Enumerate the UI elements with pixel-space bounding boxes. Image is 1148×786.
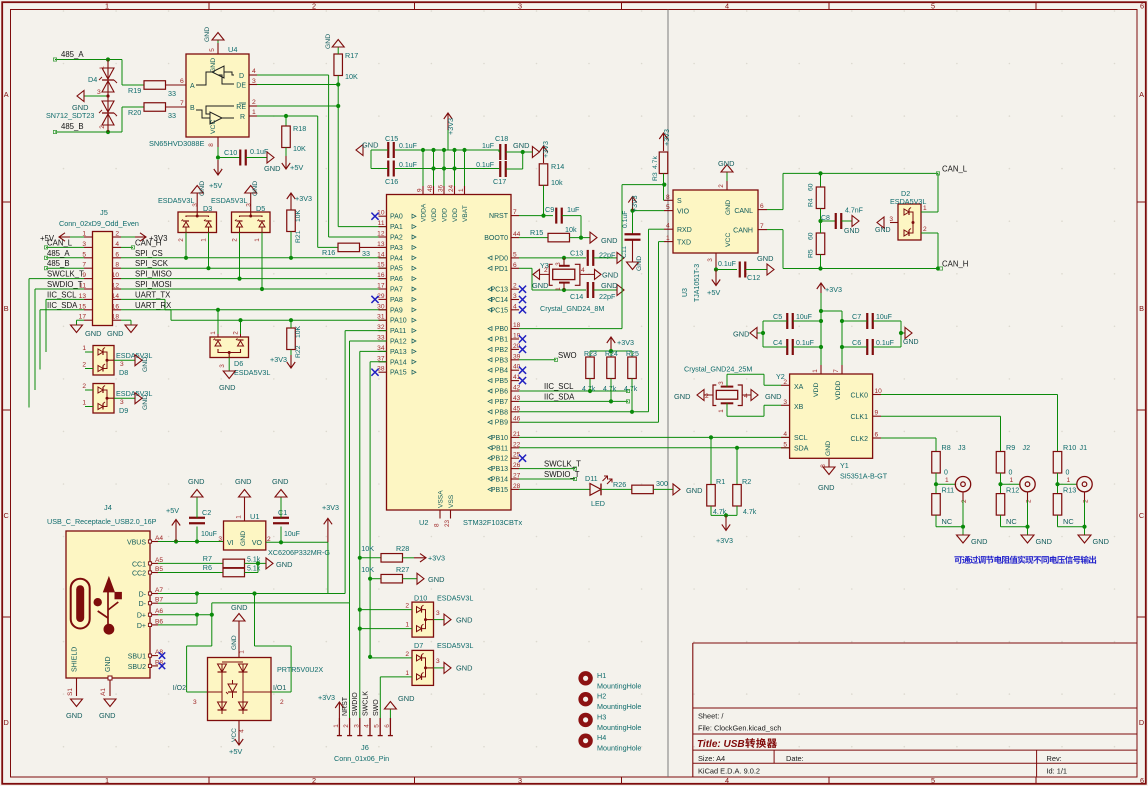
node junction D4 top (106, 57, 110, 61)
ground GND right of R26 (673, 484, 702, 495)
node junction B7 join (195, 591, 199, 595)
resistor R21 10K (287, 209, 302, 243)
wire PD1 to crystal bottom (519, 268, 586, 290)
svg-text:10K: 10K (361, 565, 374, 574)
ground GND below A1 (99, 699, 116, 720)
power +3V3 above R21 (287, 193, 312, 210)
svg-text:R6: R6 (203, 563, 212, 572)
svg-text:MountingHole: MountingHole (597, 702, 641, 711)
svg-text:PB13: PB13 (491, 466, 508, 473)
ground GND right of C8 (844, 216, 860, 236)
svg-text:0.1uF: 0.1uF (796, 340, 814, 347)
svg-text:GND: GND (240, 531, 247, 546)
resistor R10 0 (1053, 443, 1076, 477)
svg-text:6: 6 (760, 203, 764, 210)
svg-text:PA15: PA15 (390, 370, 407, 377)
label SWCLK_T at J5 + wire to D9 (29, 270, 84, 408)
svg-text:PB12: PB12 (491, 456, 508, 463)
svg-text:A: A (1139, 90, 1144, 99)
node junctions VDD bus (421, 148, 467, 171)
svg-text:CAN_L: CAN_L (47, 238, 73, 247)
wire UART_RX to PA10 (121, 310, 387, 320)
svg-text:C16: C16 (385, 177, 398, 186)
svg-text:GND: GND (513, 141, 529, 150)
svg-text:PB1: PB1 (495, 337, 508, 344)
wire VCC pin3 down (715, 261, 717, 270)
svg-text:TXD: TXD (677, 240, 691, 247)
svg-text:27: 27 (513, 473, 521, 480)
svg-text:1: 1 (254, 238, 261, 242)
ground GND below J1 (1078, 527, 1109, 546)
svg-text:R16: R16 (322, 248, 335, 257)
svg-text:PA11: PA11 (390, 328, 406, 335)
node junction SDA R2 (735, 446, 739, 450)
wire J3 jack gnd join (936, 500, 963, 527)
wire +3V3 leg down to D- row (327, 542, 329, 593)
svg-text:PB5: PB5 (495, 378, 508, 385)
svg-text:CC1: CC1 (132, 561, 146, 568)
svg-text:SBU2: SBU2 (128, 664, 146, 671)
svg-text:+5V: +5V (707, 288, 720, 297)
svg-text:D10: D10 (414, 594, 427, 603)
svg-text:J1: J1 (1080, 443, 1088, 452)
wire D8 pin3 GND (114, 355, 149, 372)
svg-text:2: 2 (705, 393, 709, 400)
node junction D5.1 (260, 287, 264, 291)
svg-text:VCC: VCC (725, 233, 732, 247)
label 485_A at J5 (44, 249, 84, 260)
svg-text:15: 15 (79, 303, 87, 310)
svg-text:R13: R13 (1063, 486, 1076, 495)
svg-text:33: 33 (168, 89, 176, 98)
svg-text:4: 4 (725, 1, 729, 10)
svg-text:0.1uF: 0.1uF (876, 340, 894, 347)
svg-text:R4: R4 (808, 198, 815, 207)
svg-text:PB10: PB10 (491, 435, 508, 442)
svg-text:+5V: +5V (209, 181, 222, 190)
svg-text:IIC_SDA: IIC_SDA (544, 392, 575, 401)
title block (693, 643, 1137, 777)
ground GND below D6 (219, 371, 235, 392)
svg-text:4: 4 (666, 223, 670, 230)
svg-text:File: ClockGen.kicad_sch: File: ClockGen.kicad_sch (698, 724, 781, 733)
svg-text:GND: GND (325, 34, 332, 49)
node junction D5.2 (237, 277, 241, 281)
svg-text:Conn_02xD9_Odd_Even: Conn_02xD9_Odd_Even (59, 219, 139, 228)
wire D6 pin2 to UART_RX (240, 320, 242, 334)
svg-text:PB2: PB2 (495, 347, 508, 354)
power +3V3 above R14 (539, 141, 550, 163)
ground GND at D4 (72, 91, 88, 113)
svg-text:GND: GND (674, 392, 690, 401)
svg-text:H4: H4 (597, 733, 606, 742)
wire VDD1 pin stub (433, 150, 435, 186)
svg-text:485_A: 485_A (47, 249, 70, 258)
svg-text:10: 10 (112, 272, 120, 279)
svg-text:1: 1 (718, 409, 725, 413)
svg-text:1: 1 (210, 331, 217, 335)
svg-text:C18: C18 (495, 134, 508, 143)
svg-text:7: 7 (180, 100, 184, 107)
svg-text:10uF: 10uF (284, 531, 300, 538)
svg-text:3: 3 (889, 216, 893, 223)
svg-text:44: 44 (513, 231, 521, 238)
svg-text:PB11: PB11 (491, 445, 508, 452)
svg-text:R28: R28 (396, 544, 409, 553)
svg-text:GND: GND (188, 477, 204, 486)
power +3V3 above R3 (659, 129, 671, 151)
wire R27 to GND (403, 578, 418, 580)
power +3V3 below R22 (270, 350, 295, 369)
wire R16 left (318, 246, 338, 248)
svg-text:33: 33 (168, 111, 176, 120)
ground GND below U5 (818, 467, 835, 492)
wire BOOT0 to R15 (519, 237, 548, 239)
node junction R4 top (818, 171, 822, 175)
svg-text:3: 3 (219, 364, 226, 368)
svg-text:2: 2 (99, 125, 106, 129)
wire R15 right (570, 237, 591, 239)
svg-text:3: 3 (707, 258, 714, 262)
connector J5 Conn_02xD9_Odd_Even (59, 208, 139, 326)
node junction R18 top (284, 114, 288, 118)
node junction D+ tap (210, 613, 214, 617)
resistor R3 4.7k (652, 152, 668, 181)
svg-text:C14: C14 (570, 292, 583, 301)
resistor R7 5.1k (203, 554, 261, 568)
svg-text:D7: D7 (414, 641, 423, 650)
node junction D10.2 (358, 608, 362, 612)
svg-text:NRST: NRST (489, 213, 509, 220)
svg-text:0: 0 (1009, 470, 1013, 477)
svg-text:XA: XA (794, 384, 804, 391)
capacitor C8 4.7nF (821, 208, 863, 230)
ground GND right of C18 (513, 141, 539, 158)
J4 pin D+ A6 (137, 608, 164, 620)
svg-text:32: 32 (377, 324, 385, 331)
pin 8 U4 bottom (208, 137, 218, 147)
wire UART_TX to PA9 (121, 299, 387, 309)
svg-text:GND: GND (1093, 537, 1109, 546)
svg-text:SWO: SWO (558, 351, 577, 360)
wire VDD2 pin stub (443, 150, 445, 186)
svg-text:SHIELD: SHIELD (72, 647, 79, 672)
wire PB10 SCL (519, 436, 790, 438)
node junction +5V vbus (174, 539, 178, 543)
svg-text:1: 1 (105, 1, 109, 10)
svg-text:VDDA: VDDA (421, 203, 428, 222)
resistor R9 0 (996, 443, 1015, 477)
ground GND at J5 pin18 (107, 320, 137, 338)
svg-text:SWCLK_T: SWCLK_T (47, 270, 84, 279)
wire VDD bus lower (395, 168, 499, 170)
D1 pin I/O1 (273, 685, 286, 706)
svg-text:300: 300 (656, 479, 668, 488)
svg-text:2: 2 (405, 603, 409, 610)
svg-text:6: 6 (115, 251, 119, 258)
wire Y2 top to XA (727, 374, 781, 386)
svg-text:IIC_SDA: IIC_SDA (47, 301, 78, 310)
wire R21 to SPI_CS (290, 232, 292, 258)
label SWDIO_T at PB14 (519, 470, 580, 481)
wire CLK2 to J3 (881, 438, 936, 452)
svg-text:9: 9 (417, 188, 424, 192)
diode D7 ESDA5V3L (405, 650, 433, 685)
svg-text:1: 1 (812, 369, 819, 373)
wire 485_A (53, 58, 122, 61)
svg-text:J4: J4 (104, 503, 112, 512)
ground GND left of Y3 pin2 (532, 269, 549, 290)
svg-text:PA12: PA12 (390, 339, 407, 346)
svg-text:+3V3: +3V3 (632, 195, 639, 212)
svg-text:VDDD: VDDD (835, 381, 842, 400)
svg-text:4: 4 (252, 68, 256, 75)
svg-text:2: 2 (1026, 499, 1033, 503)
svg-text:3: 3 (718, 381, 725, 385)
svg-text:22: 22 (513, 441, 521, 448)
svg-text:R20: R20 (128, 108, 141, 117)
svg-text:A: A (190, 83, 195, 90)
node junction R6 R7 (256, 561, 260, 565)
power +3V3 at J5 pin2 (121, 233, 167, 243)
svg-text:GND: GND (765, 392, 781, 401)
svg-text:D-: D- (139, 601, 147, 608)
svg-text:1: 1 (405, 670, 409, 677)
svg-text:VBUS: VBUS (127, 540, 146, 547)
wire C17 C18 right join (506, 152, 523, 169)
diode D8 ESDA5V3L (82, 345, 114, 375)
svg-text:33: 33 (362, 249, 370, 258)
svg-text:D8: D8 (119, 368, 128, 377)
svg-text:2: 2 (82, 362, 86, 369)
capacitor C16 0.1uF (385, 161, 417, 187)
svg-text:SWDIO: SWDIO (352, 692, 359, 716)
node junction C8 (818, 219, 822, 223)
svg-text:B7: B7 (155, 597, 163, 604)
svg-text:Conn_01x06_Pin: Conn_01x06_Pin (334, 754, 389, 763)
wire D7 pin1 to SWO (380, 677, 412, 718)
svg-text:VIO: VIO (677, 209, 690, 216)
power +5V at VBUS (166, 506, 180, 542)
cursor crosshair line (667, 10, 669, 778)
svg-text:TJA1051T-3: TJA1051T-3 (694, 264, 701, 302)
wire CLK1 to J2 (881, 416, 1001, 451)
wire CC1 to R7 (158, 562, 223, 564)
svg-text:Y2: Y2 (776, 372, 785, 381)
svg-text:CLK0: CLK0 (850, 393, 868, 400)
node junction J1 gnd (1082, 525, 1086, 529)
svg-text:NRST: NRST (342, 696, 349, 716)
diode D5 ESDA5V3L (232, 203, 271, 242)
svg-text:Sheet: /: Sheet: / (698, 712, 724, 721)
diode D2 ESDA5V3L (890, 189, 928, 240)
svg-text:2: 2 (343, 724, 350, 728)
label 485_B (61, 122, 84, 131)
ground GND at J5 pin17 (71, 320, 102, 338)
ground GND right of C10 (264, 152, 280, 173)
node junction D10.1 (358, 627, 362, 631)
svg-text:GND: GND (456, 616, 472, 625)
svg-text:C: C (1139, 511, 1144, 520)
svg-text:GND: GND (72, 103, 88, 112)
svg-text:5: 5 (374, 724, 381, 728)
svg-text:2: 2 (513, 283, 517, 290)
svg-text:B: B (1139, 304, 1144, 313)
svg-text:+3V3: +3V3 (318, 693, 335, 702)
svg-text:C2: C2 (202, 508, 211, 517)
diode D1 PRTR5V0U2X (208, 658, 324, 721)
wire PA2 entry (329, 236, 387, 238)
svg-text:SN65HVD3088E: SN65HVD3088E (149, 139, 205, 148)
svg-text:6: 6 (1140, 776, 1144, 785)
resistor R12 NC (996, 484, 1019, 526)
svg-text:+3V3: +3V3 (428, 554, 445, 563)
svg-text:GND: GND (107, 329, 123, 338)
resistor R18 10K (282, 116, 306, 153)
svg-text:4.7k: 4.7k (603, 386, 617, 393)
labels D7 (414, 641, 473, 665)
svg-text:8: 8 (666, 194, 670, 201)
power +3V3 above U2 (444, 113, 455, 150)
node junction B6 join (195, 613, 199, 617)
svg-text:10K: 10K (345, 72, 358, 81)
svg-text:R21: R21 (295, 230, 302, 243)
svg-text:Y1: Y1 (840, 461, 849, 470)
svg-text:R10: R10 (1063, 443, 1076, 452)
ground GND above U1 (235, 477, 251, 497)
svg-text:1: 1 (458, 188, 465, 192)
ground GND above C1 (272, 477, 288, 518)
ground GND below J2 (1021, 527, 1052, 546)
svg-text:4.7k: 4.7k (652, 156, 659, 169)
svg-text:PD1: PD1 (494, 266, 508, 273)
ground GND right of R7 (266, 558, 292, 569)
svg-text:37: 37 (377, 355, 385, 362)
wire U4 RE pin2 (249, 105, 338, 107)
node junction VIO C11 (630, 209, 634, 213)
node junction J2 (998, 482, 1002, 486)
svg-text:SBU1: SBU1 (128, 654, 146, 661)
wire SPI_MISO to PA6 (121, 278, 387, 280)
svg-text:4.7k: 4.7k (743, 509, 757, 516)
node junction R22 (289, 318, 293, 322)
svg-text:PRTR5V0U2X: PRTR5V0U2X (277, 665, 323, 674)
svg-text:12: 12 (377, 231, 385, 238)
capacitor C15 0.1uF (385, 134, 417, 158)
svg-text:1: 1 (82, 400, 86, 407)
wire U1 VO (266, 541, 328, 543)
svg-text:Id: 1/1: Id: 1/1 (1047, 766, 1068, 775)
svg-text:GND: GND (105, 656, 112, 672)
svg-text:PB7: PB7 (495, 399, 508, 406)
svg-text:R24: R24 (605, 351, 618, 358)
wire SPI_SCK to PA5 (121, 267, 387, 269)
svg-text:SPI_CS: SPI_CS (135, 249, 163, 258)
svg-text:PB15: PB15 (491, 487, 508, 494)
node junction D7.2 (368, 655, 372, 659)
wire D3 pin2 to SPI_CS (185, 233, 187, 258)
svg-text:C10: C10 (224, 148, 237, 157)
node junction D4 bottom (106, 130, 110, 134)
svg-text:0.1uF: 0.1uF (250, 147, 269, 156)
wire D3 pin1 to SPI_SCK (208, 233, 210, 269)
svg-text:+5V: +5V (229, 747, 242, 756)
svg-text:0.1uF: 0.1uF (476, 162, 494, 169)
svg-text:NC: NC (942, 517, 953, 526)
crystal Y3 Crystal_GND24_8M (540, 258, 604, 313)
svg-text:5: 5 (666, 204, 670, 211)
svg-text:3: 3 (82, 241, 86, 248)
svg-text:10: 10 (875, 388, 883, 395)
svg-text:2: 2 (232, 238, 239, 242)
svg-text:R3: R3 (652, 172, 659, 181)
mounting hole H1 (578, 671, 641, 691)
svg-text:D3: D3 (203, 204, 212, 213)
svg-text:PB4: PB4 (495, 368, 508, 375)
wire VDD rails (821, 311, 842, 374)
node junction R23 (588, 389, 592, 393)
node junction RE R17 (336, 104, 340, 108)
wire R23 to IIC_SCL (589, 379, 591, 392)
wire PB11 SDA (519, 447, 790, 449)
svg-text:4: 4 (513, 303, 517, 310)
svg-text:2: 2 (961, 499, 968, 503)
svg-text:485_A: 485_A (61, 50, 84, 59)
resistor R13 NC (1053, 484, 1076, 526)
node junction D3.1 (206, 266, 210, 270)
svg-text:LED: LED (591, 499, 605, 508)
svg-text:10uF: 10uF (201, 531, 217, 538)
wire D7 pin2 to SWCLK (370, 657, 412, 659)
svg-text:D4: D4 (88, 75, 97, 84)
svg-text:14: 14 (377, 251, 385, 258)
mounting hole H3 (578, 712, 641, 732)
label SWDIO_T at J5 + wire to D9 (35, 280, 84, 390)
svg-text:PB14: PB14 (491, 477, 508, 484)
svg-text:VI: VI (227, 540, 234, 547)
wire C13 to GND (594, 257, 618, 259)
resistor R25 4.7k (624, 351, 639, 393)
wire D4 pin3 to GND (84, 95, 108, 97)
svg-text:10uF: 10uF (876, 314, 892, 321)
svg-text:SPI_MOSI: SPI_MOSI (135, 280, 172, 289)
svg-text:36: 36 (438, 184, 445, 192)
wire VDD3 pin stub (454, 150, 456, 186)
svg-text:D+: D+ (137, 623, 146, 630)
svg-text:CAN_L: CAN_L (942, 165, 968, 174)
node junction J3 (934, 482, 938, 486)
svg-text:B6: B6 (155, 618, 163, 625)
svg-text:GND: GND (231, 635, 238, 650)
svg-text:VSSA: VSSA (438, 490, 445, 508)
svg-text:16: 16 (377, 272, 385, 279)
svg-text:C17: C17 (493, 177, 506, 186)
wire VDD bus top (395, 149, 499, 151)
svg-text:GND: GND (718, 159, 734, 168)
svg-text:ESDA5V3L: ESDA5V3L (158, 196, 194, 205)
connector J1 coax (1077, 443, 1092, 503)
svg-text:ESDA5V3L: ESDA5V3L (890, 197, 926, 206)
resistor R11 NC (932, 484, 954, 526)
ground GND below J3 (957, 527, 988, 546)
svg-text:IIC_SCL: IIC_SCL (544, 382, 574, 391)
resistor R15 10k (530, 225, 577, 242)
svg-text:GND: GND (875, 227, 891, 234)
svg-text:C9: C9 (545, 205, 554, 214)
svg-text:PA9: PA9 (390, 307, 403, 314)
svg-text:J6: J6 (361, 743, 369, 752)
svg-text:D11: D11 (585, 474, 598, 483)
